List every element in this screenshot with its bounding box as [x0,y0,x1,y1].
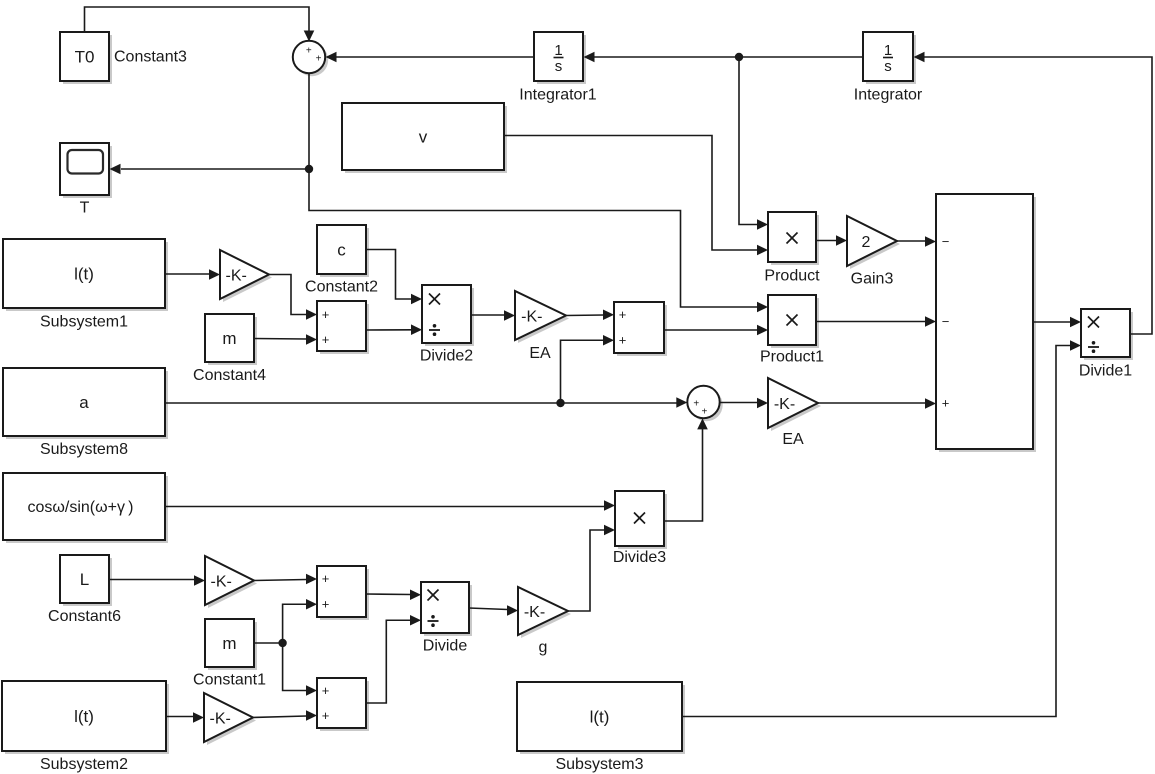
wire Divide output to gain g [469,605,518,616]
wire Subsystem8 output to sum circle mid [165,397,687,408]
gain block Gain3 (2) [847,216,900,288]
svg-text:1: 1 [554,42,562,59]
svg-text:Divide: Divide [423,638,468,655]
wire sum ++ output to Product1 input 2 [664,325,768,336]
svg-text:+: + [619,333,627,348]
svg-text:Product: Product [764,268,820,285]
svg-text:v: v [419,128,428,147]
svg-text:+: + [322,597,330,612]
wire big sum output to Divide1 input 1 [1033,317,1081,328]
svg-text:T: T [80,200,90,217]
wire Product1 output to big sum input 2 [816,316,936,327]
divide block Divide2 [420,285,474,365]
wire Constant6 to gain [109,575,205,586]
svg-text:+: + [322,683,330,698]
svg-text:Divide2: Divide2 [420,348,473,365]
svg-text:EA: EA [529,345,551,362]
svg-text:-K-: -K- [226,267,247,284]
svg-text:EA: EA [782,431,804,448]
junction dot on a wire [556,399,564,407]
wire sum circle down to junction then Scope [110,74,310,175]
wire Constant2 down to Divide2 input 1 [366,250,422,305]
svg-text:+: + [322,571,330,586]
svg-text:l(t): l(t) [590,708,610,727]
svg-text:1: 1 [884,42,892,59]
divide block Divide [421,582,472,655]
subsystem block Subsystem8 a [3,368,168,458]
wire EA lower output to big sum input 3 [818,398,936,409]
svg-text:Subsystem2: Subsystem2 [40,756,128,773]
junction dot at Constant1 branch [278,639,286,647]
svg-text:Subsystem8: Subsystem8 [40,441,128,458]
svg-text:+: + [693,398,699,409]
wire gain g up to Divide3 input 2 [568,525,615,611]
wire T0 to sum circle top [85,7,315,42]
gain block -K- (after Subsystem2) [204,693,256,745]
wire gain to sum ++ input 2 (bottom) [253,710,317,721]
subsystem block v [342,103,507,173]
wire gain output down to sum ++ input 1 [269,275,317,320]
subsystem block Subsystem3 l(t) [517,682,685,773]
subsystem block Subsystem2 l(t) [2,681,169,773]
constant block m (Constant1) [193,619,266,689]
scope block T [60,143,112,217]
gain block EA (upper) [515,291,569,362]
gain block -K- (after Constant6) [205,556,257,608]
svg-text:Constant3: Constant3 [114,49,187,66]
wire Integrator1 output to sum circle [326,52,535,63]
svg-text:T0: T0 [75,48,95,67]
svg-text:Divide3: Divide3 [613,549,666,566]
svg-text:Integrator1: Integrator1 [519,87,596,104]
constant block T0 (Constant3) [60,32,187,84]
svg-text:m: m [222,329,236,348]
wire v output to Product input 2 [504,136,768,256]
svg-text:−: − [942,234,950,249]
svg-text:m: m [222,634,236,653]
wire junction down to sum ++ input 1 (bottom) [283,643,317,696]
wire junction down to Product input 1 [739,57,768,230]
svg-text:−: − [942,314,950,329]
svg-text:+: + [316,54,322,65]
subsystem block cos&#969;/sin(&#969;+&#947;) [3,473,168,543]
gain block g (-K-) [518,587,571,656]
wire Subsystem3 output up to Divide1 input 2 [682,340,1081,716]
sum block ++ (feeds Divide divisor) [317,678,369,731]
divide block Divide1 [1079,309,1133,380]
svg-text:l(t): l(t) [74,707,94,726]
sum junction circle ++ (mid) [687,386,722,421]
svg-text:+: + [322,307,330,322]
wire Divide3 output up to sum circle bottom [664,418,708,521]
svg-text:Constant1: Constant1 [193,672,266,689]
wire cos block output to Divide3 input 1 [165,500,615,511]
svg-text:g: g [539,639,548,656]
svg-text:Constant6: Constant6 [48,608,121,625]
svg-text:+: + [619,307,627,322]
wire sum ++ output to Divide input 1 [366,589,421,600]
wire Constant1 junction up to sum ++ input 2 (lower) [254,599,317,643]
wire Product output to Gain3 [816,235,847,246]
svg-text:Subsystem1: Subsystem1 [40,314,128,331]
svg-text:-K-: -K- [211,573,232,590]
wire gain EA output to sum ++ input 1 (mid) [566,309,614,320]
svg-text:cosω/sin(ω+γ ): cosω/sin(ω+γ ) [28,499,134,516]
wire sum circle mid to gain EA lower [720,398,768,409]
wire Constant4 to sum ++ input 2 [254,334,317,345]
wire junction down right down to Product1 input 1 [309,169,768,312]
svg-text:+: + [942,396,950,411]
constant block m (Constant4) [193,314,266,384]
svg-text:-K-: -K- [774,396,795,413]
svg-text:+: + [701,407,707,418]
wire Integrator output to Integrator1 input [584,52,864,63]
svg-text:a: a [79,393,89,412]
svg-text:s: s [884,58,892,75]
svg-text:-K-: -K- [524,604,545,621]
svg-text:L: L [80,570,89,589]
svg-text:2: 2 [862,234,871,251]
wire a-line junction up to sum ++ input 2 (mid) [561,335,615,403]
svg-text:Gain3: Gain3 [851,271,894,288]
sum block ++ (feeds Divide x) [317,566,369,620]
constant block c (Constant2) [305,225,378,296]
integrator block Integrator (1/s) [854,32,923,104]
svg-text:+: + [306,45,312,56]
svg-text:-K-: -K- [521,308,542,325]
svg-text:Constant2: Constant2 [305,279,378,296]
wire Subsystem1 output to gain [165,269,220,280]
gain block -K- (after Subsystem1) [220,250,272,302]
product block Product [764,212,820,285]
product block Product1 [760,295,824,366]
svg-text:l(t): l(t) [74,265,94,284]
divide block Divide3 [613,491,667,566]
junction dot at scope branch [305,165,313,173]
svg-text:+: + [322,332,330,347]
wire sum ++ output up to Divide input 2 [366,615,421,703]
wire Divide1 output right up to Integrator input [914,52,1153,334]
wire Subsystem2 output to gain [166,712,204,723]
sum block ++ (feeds Divide2) [317,301,369,354]
svg-text:Integrator: Integrator [854,87,923,104]
svg-text:s: s [555,58,563,75]
wire gain to sum ++ input 1 (lower) [254,574,317,585]
gain block EA (lower) [768,378,821,448]
wire sum ++ output to Divide2 input 2 [366,324,422,335]
constant block L (Constant6) [48,555,121,625]
svg-text:+: + [322,708,330,723]
sum block (minus minus plus) tall [936,194,1036,452]
sum junction circle ++ (top) [293,41,328,76]
svg-text:Constant4: Constant4 [193,367,266,384]
wire Gain3 output to big sum input 1 [897,236,936,247]
subsystem block Subsystem1 l(t) [3,239,168,331]
integrator block Integrator1 (1/s) [519,32,596,104]
wire Divide2 output to gain EA [471,310,515,321]
svg-text:Product1: Product1 [760,349,824,366]
svg-text:Divide1: Divide1 [1079,363,1132,380]
svg-text:c: c [337,241,346,260]
svg-text:Subsystem3: Subsystem3 [555,756,643,773]
svg-text:-K-: -K- [210,710,231,727]
sum block ++ (feeds Product1) [614,302,667,356]
junction dot on integrator line [735,53,743,61]
